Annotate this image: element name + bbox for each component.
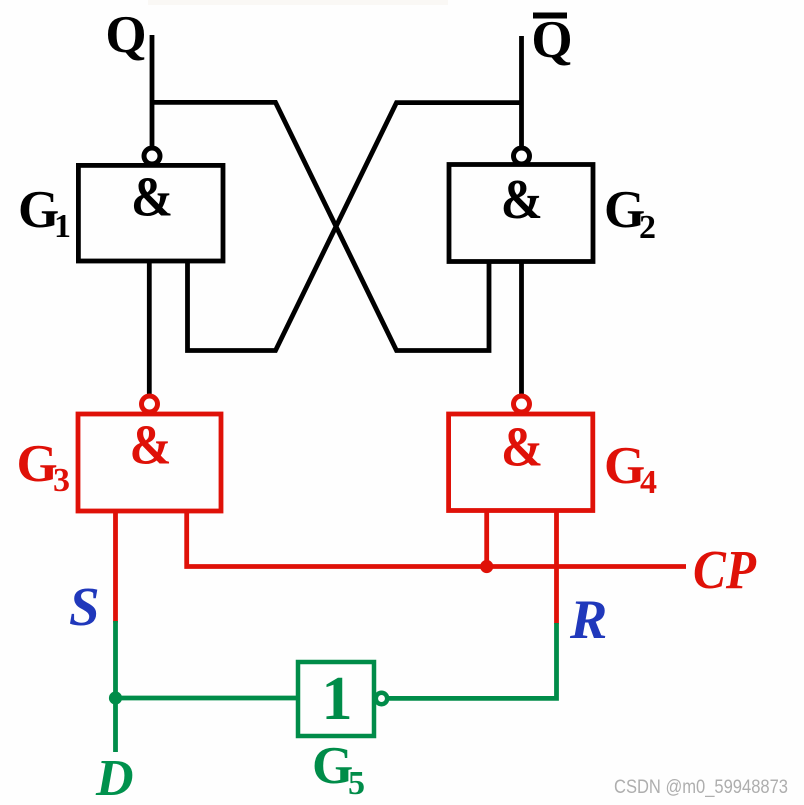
wire G4 CP-input tap xyxy=(484,511,489,567)
wire S green segment down to D junction xyxy=(113,621,118,698)
svg-text:D: D xyxy=(95,750,134,805)
wire G1 input from G3 output xyxy=(147,261,152,396)
svg-text:R: R xyxy=(569,589,607,651)
gate G2 reference label xyxy=(604,181,656,246)
svg-text:1: 1 xyxy=(322,665,353,733)
gate G5 inverter box xyxy=(298,662,374,736)
wire G3 CP-input segment down then CP line to the right xyxy=(187,511,686,567)
wire Q branch cross-coupled to G2 lower input (horiz, diagonal, horiz, up) xyxy=(152,102,489,350)
svg-text:Q: Q xyxy=(531,11,572,69)
svg-text:1: 1 xyxy=(54,208,71,245)
svg-text:CP: CP xyxy=(693,539,756,600)
svg-text:2: 2 xyxy=(639,209,656,246)
node Q-bar label xyxy=(531,11,572,69)
wire Q-bar branch cross-coupled to G1 lower input (horiz, diagonal, horiz, up) xyxy=(188,103,522,351)
junction dot at D node xyxy=(109,691,122,704)
svg-text:5: 5 xyxy=(348,765,365,802)
gate G2 output bubble xyxy=(514,148,530,164)
wire G5 output to R node xyxy=(388,623,557,698)
junction dot on CP line xyxy=(480,560,493,573)
svg-text:&: & xyxy=(501,169,543,231)
wire Q vertical into G1 bubble xyxy=(150,35,155,150)
svg-text:S: S xyxy=(69,576,100,637)
wire Q-bar vertical into G2 bubble xyxy=(519,36,524,150)
gate G5 output bubble xyxy=(376,693,387,704)
wire G3 S-input red segment xyxy=(113,511,118,623)
gate G1 reference label xyxy=(18,181,71,245)
svg-text:3: 3 xyxy=(53,462,70,499)
gate G3 reference label xyxy=(17,435,71,499)
gate G5 reference label xyxy=(312,737,365,802)
gate G3 output bubble xyxy=(142,396,158,412)
wire D input below junction xyxy=(113,698,118,752)
wire G2 input from G4 output xyxy=(519,261,524,396)
gate G4 box xyxy=(449,414,593,511)
faint cropped artifact at top edge xyxy=(148,0,448,5)
gate G4 reference label xyxy=(604,437,657,501)
gate G3 box xyxy=(78,414,221,511)
svg-text:G: G xyxy=(17,435,58,493)
gate G1 box xyxy=(78,165,223,261)
svg-text:&: & xyxy=(130,415,172,477)
svg-text:&: & xyxy=(501,417,543,479)
svg-text:4: 4 xyxy=(640,464,657,501)
wire D to G5 input xyxy=(116,696,299,701)
svg-text:CSDN @m0_59948873: CSDN @m0_59948873 xyxy=(614,776,788,798)
gate G1 output bubble xyxy=(144,148,160,164)
wire G4 R-input red segment crossing CP xyxy=(554,511,559,624)
svg-text:Q: Q xyxy=(105,6,146,64)
svg-text:&: & xyxy=(131,167,173,229)
gate G4 output bubble xyxy=(514,396,530,412)
gate G2 box xyxy=(449,165,593,262)
